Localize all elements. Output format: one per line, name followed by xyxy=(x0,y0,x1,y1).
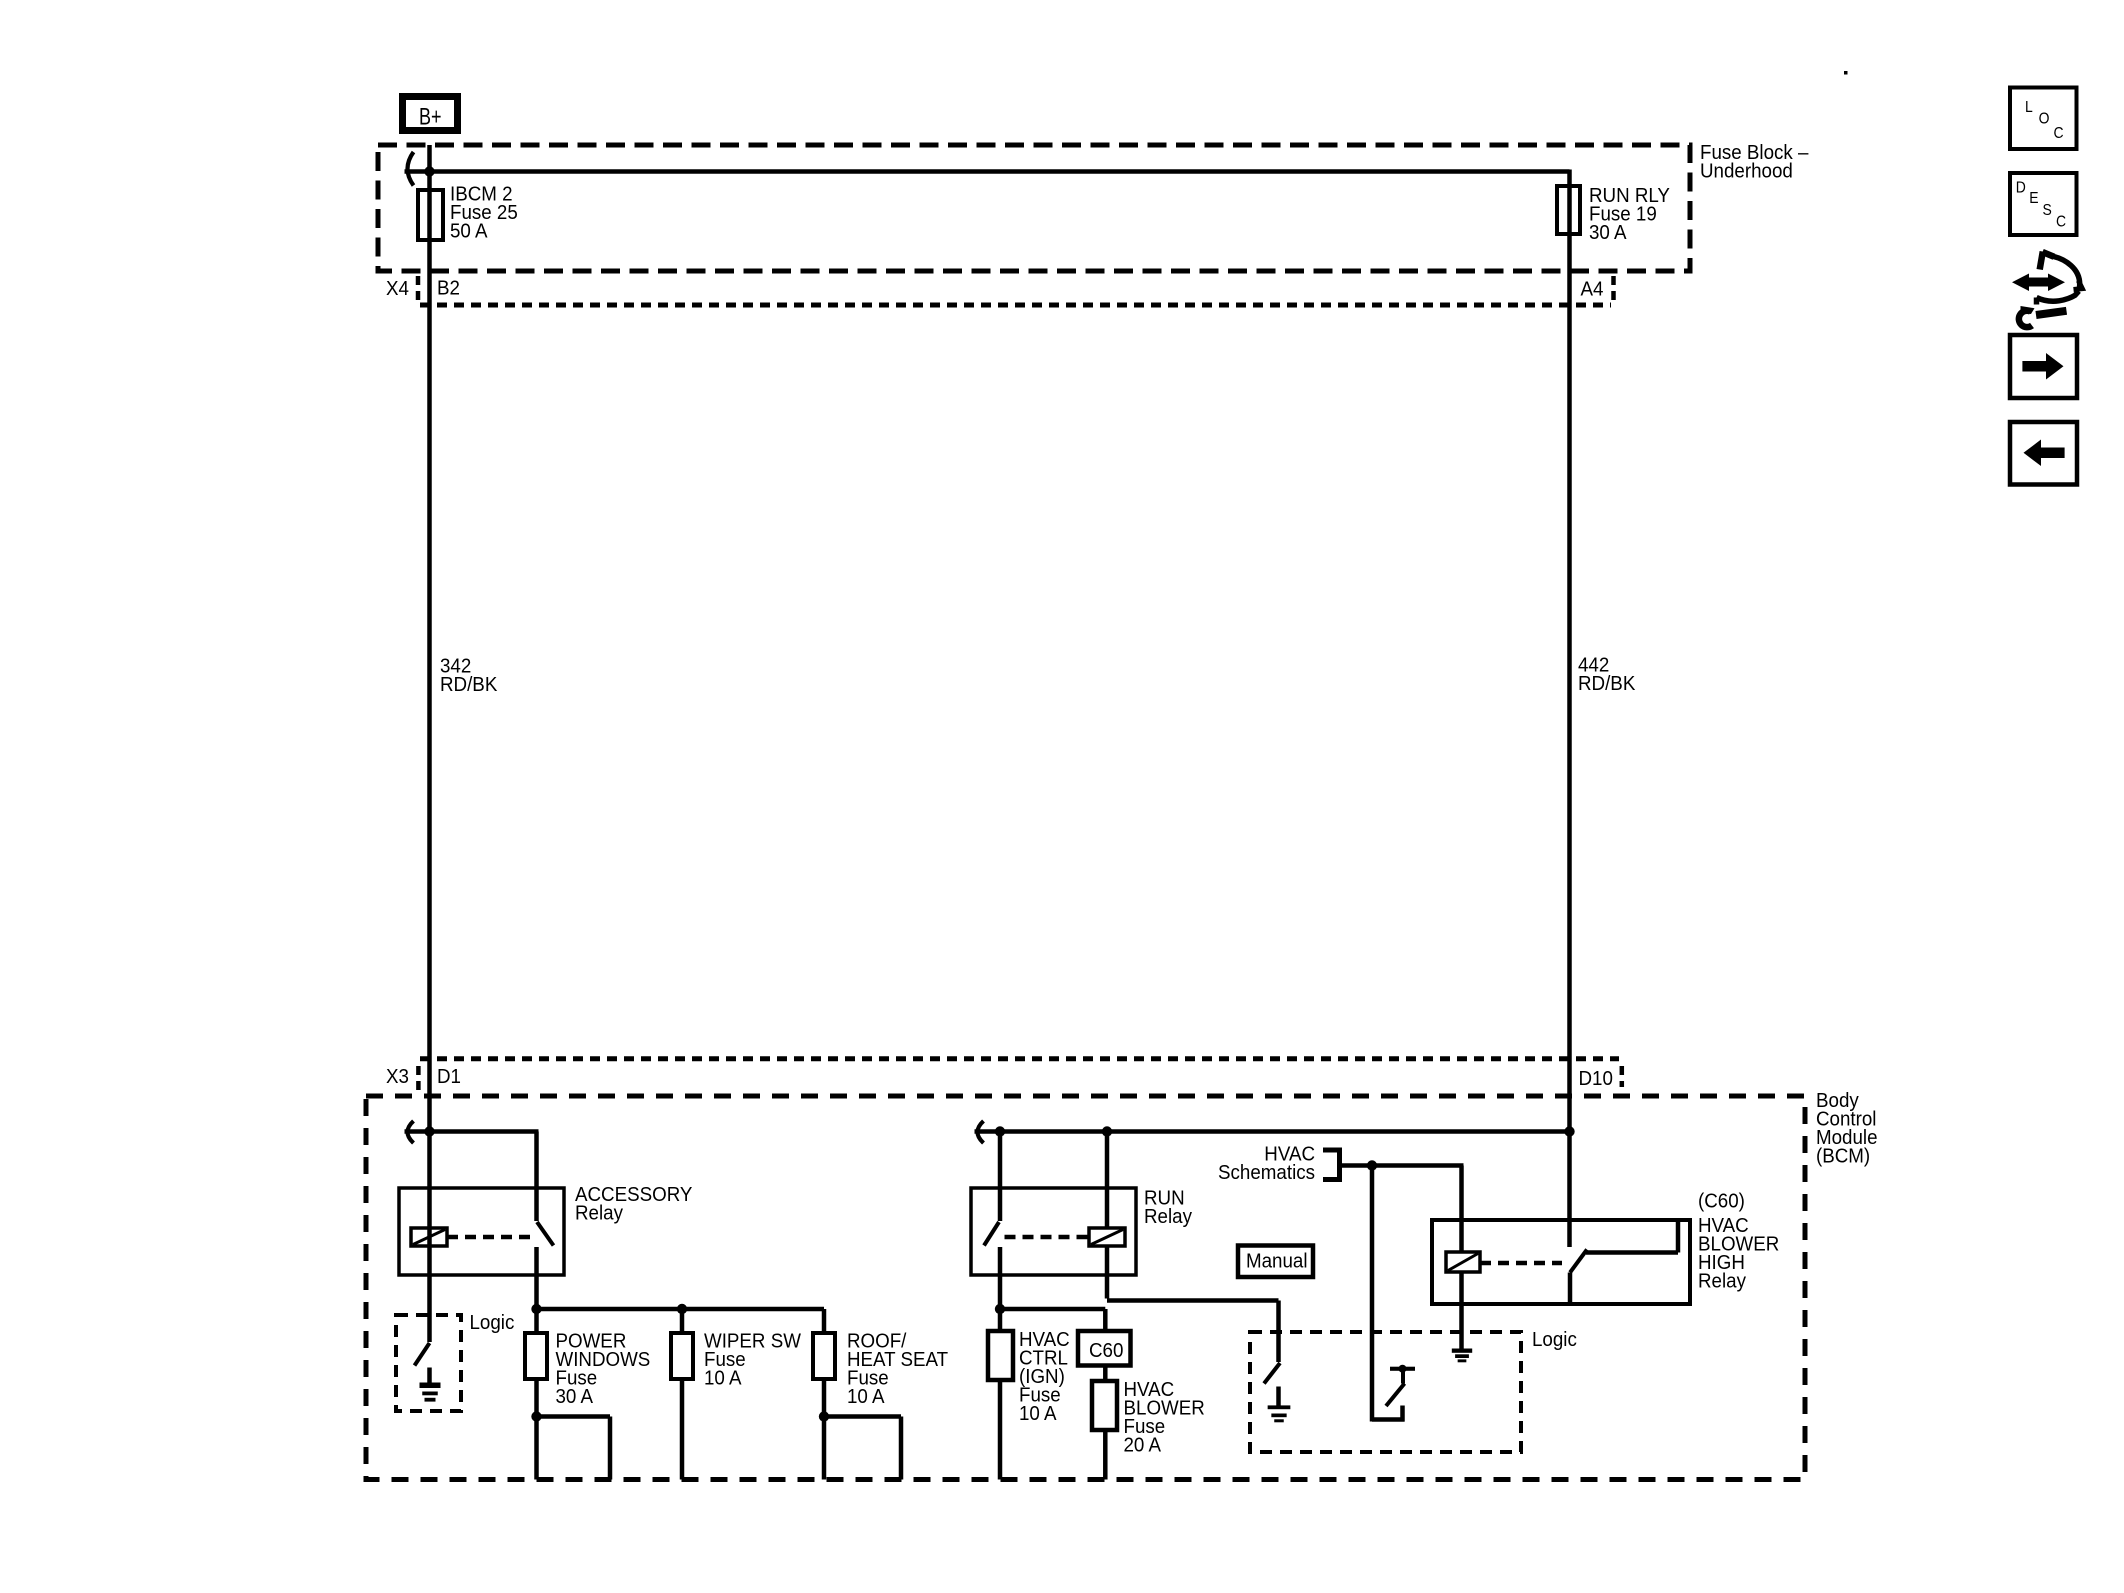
svg-text:Underhood: Underhood xyxy=(1700,160,1793,183)
svg-text:C: C xyxy=(2056,214,2066,231)
svg-text:D10: D10 xyxy=(1579,1067,1613,1090)
svg-text:20 A: 20 A xyxy=(1124,1434,1162,1457)
svg-text:RD/BK: RD/BK xyxy=(1578,672,1635,695)
svg-text:S: S xyxy=(2043,202,2052,219)
svg-text:Schematics: Schematics xyxy=(1218,1161,1315,1184)
svg-text:50 A: 50 A xyxy=(450,219,488,242)
svg-text:D: D xyxy=(2016,180,2026,197)
svg-text:C: C xyxy=(2054,125,2064,142)
svg-text:(BCM): (BCM) xyxy=(1816,1145,1870,1168)
svg-text:30 A: 30 A xyxy=(1589,221,1627,244)
svg-text:B2: B2 xyxy=(437,277,460,300)
svg-text:Manual: Manual xyxy=(1246,1250,1308,1273)
svg-text:O: O xyxy=(2039,111,2050,128)
svg-text:B+: B+ xyxy=(419,104,442,130)
svg-text:D1: D1 xyxy=(437,1065,461,1088)
svg-text:Relay: Relay xyxy=(1698,1270,1746,1293)
svg-text:X4: X4 xyxy=(386,277,409,300)
svg-text:E: E xyxy=(2029,190,2038,207)
svg-text:L: L xyxy=(2025,99,2033,116)
svg-text:(C60): (C60) xyxy=(1698,1190,1745,1213)
svg-text:Relay: Relay xyxy=(1144,1205,1192,1228)
svg-text:30 A: 30 A xyxy=(556,1385,594,1408)
svg-text:Logic: Logic xyxy=(470,1311,515,1334)
svg-text:X3: X3 xyxy=(386,1065,409,1088)
svg-text:10 A: 10 A xyxy=(847,1385,885,1408)
svg-text:10 A: 10 A xyxy=(1019,1402,1057,1425)
svg-text:C60: C60 xyxy=(1089,1339,1123,1362)
svg-text:A4: A4 xyxy=(1581,278,1604,301)
svg-text:Relay: Relay xyxy=(575,1202,623,1225)
svg-text:RD/BK: RD/BK xyxy=(440,673,497,696)
svg-text:10 A: 10 A xyxy=(704,1367,742,1390)
svg-text:Logic: Logic xyxy=(1532,1328,1577,1351)
